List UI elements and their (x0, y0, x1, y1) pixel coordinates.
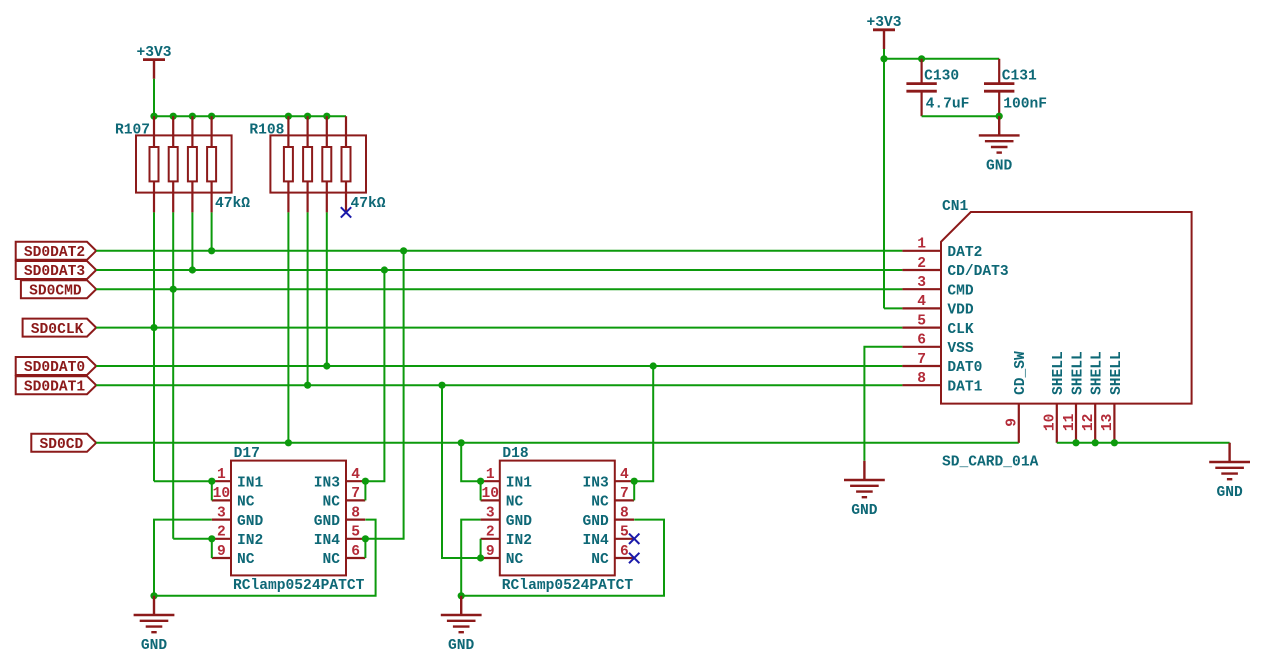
ground GND (SHELL) (1209, 443, 1250, 479)
wire R108.1 down to SD0CD (287, 212, 289, 442)
wire R108.3 down to SD0DAT0 (326, 212, 328, 366)
svg-text:1: 1 (217, 467, 226, 483)
wire D17 GND left down (154, 520, 212, 596)
D18 pin 6 (NC) stub (615, 557, 634, 559)
svg-text:3: 3 (217, 505, 226, 521)
junction C131 GND node (996, 113, 1003, 120)
svg-text:47kΩ: 47kΩ (215, 196, 250, 212)
svg-text:1: 1 (917, 237, 926, 253)
junction SD0CD / D18 IN1 (458, 439, 465, 446)
svg-text:GND: GND (851, 503, 878, 519)
svg-text:GND: GND (448, 638, 475, 654)
svg-text:GND: GND (986, 158, 1013, 174)
junction SD0CLK / R107.1 (150, 324, 157, 331)
svg-text:GND: GND (314, 514, 341, 530)
wire tie D17 pins 2-9 (211, 539, 213, 558)
svg-text:2: 2 (486, 525, 495, 541)
wire tie D17 pins 5-6 (364, 539, 366, 558)
global label SD0DAT3 (16, 261, 97, 279)
svg-text:SD0DAT0: SD0DAT0 (24, 360, 85, 376)
svg-text:VDD: VDD (947, 303, 974, 319)
global label SD0DAT2 (16, 242, 97, 260)
svg-text:SHELL: SHELL (1070, 351, 1086, 395)
junction D18 IN1 (477, 478, 484, 485)
svg-text:R108: R108 (249, 122, 284, 138)
D17 pin 7 (NC) stub (346, 499, 365, 501)
D18 pin 9 (NC) stub (481, 557, 500, 559)
svg-text:DAT0: DAT0 (947, 360, 982, 376)
wire tie D18 pins 2-9 (480, 539, 482, 558)
D18 pin 3 (GND) stub (481, 518, 500, 520)
wire tie D17 pins 1-10 (211, 481, 213, 500)
svg-text:GND: GND (583, 514, 610, 530)
D17 pin 1 (IN1) stub (212, 480, 231, 482)
junction SD0DAT2 / R107.4 (208, 247, 215, 254)
wire CN1 VSS to ground (864, 347, 902, 461)
svg-text:6: 6 (351, 544, 360, 560)
IC D18 body (500, 461, 615, 576)
D18 pin 8 (GND) stub (615, 518, 634, 520)
svg-text:GND: GND (1216, 485, 1243, 501)
svg-text:IN2: IN2 (237, 533, 263, 549)
svg-text:RClamp0524PATCT: RClamp0524PATCT (502, 578, 634, 594)
svg-text:NC: NC (237, 495, 255, 511)
wire D18 IN3 to SD0DAT0 (634, 366, 653, 481)
svg-text:7: 7 (351, 486, 360, 502)
global label SD0CMD (21, 280, 96, 298)
svg-text:8: 8 (620, 505, 629, 521)
no-connect X D18 pin6 (629, 553, 639, 563)
CN1 pin 2 (CD/DAT3) stub (902, 269, 941, 271)
ground GND (D17) (134, 596, 175, 632)
svg-text:12: 12 (1081, 414, 1097, 432)
wire tie D18 pins 1-10 (480, 481, 482, 500)
CN1 pin 9 (CD_SW) stub (1018, 404, 1020, 443)
svg-text:NC: NC (322, 552, 340, 568)
svg-text:RClamp0524PATCT: RClamp0524PATCT (233, 578, 365, 594)
junction D18 pin9 (477, 554, 484, 561)
wire R107.1 down to D17 IN1 (SD0CLK) (153, 212, 155, 481)
svg-text:CLK: CLK (947, 322, 974, 338)
junction top row x=211.6 (208, 113, 215, 120)
wire resistor top row (154, 115, 346, 117)
svg-text:SD0CD: SD0CD (40, 437, 84, 453)
wire D18 GND right loop (461, 520, 664, 596)
wire R107.3 down to SD0DAT3 (191, 212, 193, 270)
capacitor C131 (984, 59, 1014, 116)
junction SD0CMD / R107.2 (170, 286, 177, 293)
global label SD0CLK (23, 319, 97, 337)
svg-text:9: 9 (486, 544, 495, 560)
wire SD0DAT0 row (96, 365, 902, 367)
global label SD0DAT0 (16, 357, 97, 375)
wire R107.2 down to D17 IN2 (SD0CMD) (172, 212, 174, 538)
svg-text:CD/DAT3: CD/DAT3 (947, 264, 1009, 280)
svg-text:GND: GND (237, 514, 264, 530)
svg-text:IN3: IN3 (583, 475, 610, 491)
svg-text:GND: GND (506, 514, 533, 530)
wire R107.4 down to SD0DAT2 (211, 212, 213, 250)
CN1 pin 5 (CLK) stub (902, 327, 941, 329)
D18 pin 4 (IN3) stub (615, 480, 634, 482)
wire +3V3 top row (884, 58, 999, 60)
svg-text:NC: NC (322, 495, 340, 511)
CN1 pin 13 (SHELL) stub (1113, 404, 1115, 443)
svg-text:C131: C131 (1002, 68, 1037, 84)
svg-text:2: 2 (217, 525, 226, 541)
svg-text:SD0DAT1: SD0DAT1 (24, 379, 86, 395)
svg-text:3: 3 (917, 275, 926, 291)
svg-text:SHELL: SHELL (1051, 351, 1067, 395)
svg-text:6: 6 (620, 544, 629, 560)
D18 pin 2 (IN2) stub (481, 538, 500, 540)
IC D17 body (231, 461, 346, 576)
svg-text:7: 7 (620, 486, 629, 502)
wire tie D18 pins 4-7 (633, 481, 635, 500)
svg-text:4: 4 (917, 294, 926, 310)
svg-text:6: 6 (917, 333, 926, 349)
D17 pin 10 (NC) stub (212, 499, 231, 501)
svg-text:100nF: 100nF (1003, 97, 1047, 113)
D17 pin 6 (NC) stub (346, 557, 365, 559)
svg-text:1: 1 (486, 467, 495, 483)
svg-text:D18: D18 (502, 446, 528, 462)
svg-text:4.7uF: 4.7uF (926, 97, 970, 113)
svg-text:2: 2 (917, 256, 926, 272)
svg-text:SHELL: SHELL (1109, 351, 1125, 395)
junction C130 top (918, 55, 925, 62)
junction SD0DAT3 / R107.3 (189, 266, 196, 273)
junction D17 IN3 (362, 478, 369, 485)
svg-text:10: 10 (1043, 414, 1059, 432)
junction top row x=288.4 (285, 113, 292, 120)
junction SD0DAT1 / D18 (438, 382, 445, 389)
D18 pin 10 (NC) stub (481, 499, 500, 501)
junction SD0DAT2 / D17 IN4 (400, 247, 407, 254)
D17 pin 2 (IN2) stub (212, 538, 231, 540)
svg-text:SD0CLK: SD0CLK (31, 322, 84, 338)
resistor pack R107 body (136, 116, 232, 212)
wire to D17 IN2 (173, 538, 212, 540)
svg-text:SHELL: SHELL (1090, 351, 1106, 395)
svg-text:47kΩ: 47kΩ (351, 196, 386, 212)
svg-text:10: 10 (481, 486, 499, 502)
CN1 pin 11 (SHELL) stub (1075, 404, 1077, 443)
ground GND (C131) (979, 116, 1020, 152)
global label SD0CD (31, 434, 96, 452)
capacitor C130 (906, 59, 936, 116)
no-connect X D18 IN4 (629, 534, 639, 544)
svg-text:IN1: IN1 (506, 475, 533, 491)
D18 pin 7 (NC) stub (615, 499, 634, 501)
svg-text:5: 5 (917, 313, 926, 329)
svg-text:DAT2: DAT2 (947, 245, 982, 261)
wire D18 GND left down (461, 520, 480, 596)
junction D18 IN3 (631, 478, 638, 485)
junction D17 IN1 (208, 478, 215, 485)
svg-text:CMD: CMD (947, 283, 974, 299)
svg-text:SD_CARD_01A: SD_CARD_01A (942, 455, 1039, 471)
wire SD0CD to D18 IN1 (461, 443, 480, 481)
wire SD0CMD row (96, 288, 902, 290)
wire SD0DAT1 row (96, 384, 902, 386)
CN1 pin 1 (DAT2) stub (902, 250, 941, 252)
wire +3V3 down to VDD (883, 59, 885, 309)
svg-text:4: 4 (351, 467, 360, 483)
junction top row x=326.8 (323, 113, 330, 120)
wire D17 GND right loop (154, 520, 376, 596)
D17 pin 5 (IN4) stub (346, 538, 365, 540)
wire to D17 IN1 (154, 480, 212, 482)
CN1 pin 10 (SHELL) stub (1056, 404, 1058, 443)
svg-text:5: 5 (351, 525, 360, 541)
power +3V3 PWR1 (left) (143, 60, 165, 79)
junction SD0DAT3 / D17 IN3 (381, 266, 388, 273)
svg-text:SD0CMD: SD0CMD (29, 283, 82, 299)
svg-text:SD0DAT3: SD0DAT3 (24, 264, 86, 280)
svg-text:+3V3: +3V3 (136, 45, 171, 61)
svg-text:R107: R107 (115, 122, 150, 138)
junction top row x=173.2 (170, 113, 177, 120)
wire R108.2 down to SD0DAT1 (307, 212, 309, 385)
junction top row x=192.4 (189, 113, 196, 120)
CN1 pin 3 (CMD) stub (902, 288, 941, 290)
CN1 pin 12 (SHELL) stub (1094, 404, 1096, 443)
svg-text:CD_SW: CD_SW (1013, 351, 1029, 395)
svg-text:DAT1: DAT1 (947, 379, 982, 395)
svg-text:IN4: IN4 (583, 533, 610, 549)
junction SD0DAT1 / R108.2 (304, 382, 311, 389)
wire to CN1 VDD pin (884, 307, 902, 309)
svg-text:4: 4 (620, 467, 629, 483)
wire +3V3 stub (883, 49, 885, 59)
svg-text:7: 7 (917, 352, 926, 368)
wire D17 IN4 to SD0DAT2 (365, 251, 403, 539)
junction D18 GND node (458, 592, 465, 599)
junction D17 IN2 (208, 535, 215, 542)
global label SD0DAT1 (16, 376, 97, 394)
ground GND (VSS) (844, 461, 885, 497)
D17 pin 8 (GND) stub (346, 518, 365, 520)
junction D17 IN4 (362, 535, 369, 542)
junction top row x=154 (150, 113, 157, 120)
resistor pack R108 body (270, 116, 366, 212)
junction SHELL pin at x=1095.2 (1092, 439, 1099, 446)
svg-text:IN3: IN3 (314, 475, 341, 491)
D17 pin 4 (IN3) stub (346, 480, 365, 482)
svg-text:NC: NC (591, 495, 609, 511)
junction top row x=307.6 (304, 113, 311, 120)
wire SD0DAT2 row (96, 250, 902, 252)
wire SD0DAT1 to D18 pin9 (442, 385, 481, 558)
wire SHELL pins bus (1057, 442, 1230, 444)
D18 pin 1 (IN1) stub (481, 480, 500, 482)
svg-text:SD0DAT2: SD0DAT2 (24, 245, 85, 261)
wire SD0CLK row (96, 327, 902, 329)
svg-text:8: 8 (917, 371, 926, 387)
svg-text:IN4: IN4 (314, 533, 341, 549)
svg-text:NC: NC (506, 552, 524, 568)
svg-text:5: 5 (620, 525, 629, 541)
CN1 pin 4 (VDD) stub (902, 307, 941, 309)
svg-text:NC: NC (591, 552, 609, 568)
wire tie D17 pins 4-7 (364, 481, 366, 500)
wire SD0CD row (96, 442, 1019, 444)
svg-text:C130: C130 (924, 68, 959, 84)
D17 pin 9 (NC) stub (212, 557, 231, 559)
svg-text:9: 9 (1005, 418, 1021, 427)
svg-text:GND: GND (141, 638, 168, 654)
junction SD0DAT0 / R108.3 (323, 362, 330, 369)
junction SD0DAT0 / D18 IN3 (650, 362, 657, 369)
svg-text:VSS: VSS (947, 341, 974, 357)
svg-text:NC: NC (506, 495, 524, 511)
svg-text:IN2: IN2 (506, 533, 532, 549)
junction D17 GND node (150, 592, 157, 599)
no-connect X R108.4 bottom (341, 207, 351, 217)
junction SHELL pin at x=1114.4 (1111, 439, 1118, 446)
wire +3V3 to R107 top row (153, 79, 155, 116)
junction +3V3 / VDD (880, 55, 887, 62)
svg-text:NC: NC (237, 552, 255, 568)
svg-text:11: 11 (1062, 413, 1078, 431)
svg-text:10: 10 (213, 486, 231, 502)
D17 pin 3 (GND) stub (212, 518, 231, 520)
svg-text:8: 8 (351, 505, 360, 521)
svg-text:D17: D17 (234, 446, 260, 462)
CN1 pin 6 (VSS) stub (902, 346, 941, 348)
svg-text:13: 13 (1100, 413, 1116, 431)
svg-text:CN1: CN1 (942, 199, 969, 215)
junction SHELL pin at x=1076.0 (1072, 439, 1079, 446)
svg-text:9: 9 (217, 544, 226, 560)
CN1 pin 7 (DAT0) stub (902, 365, 941, 367)
wire SD0DAT3 row (96, 269, 902, 271)
svg-text:IN1: IN1 (237, 475, 264, 491)
junction SD0CD / R108.1 (285, 439, 292, 446)
CN1 pin 8 (DAT1) stub (902, 384, 941, 386)
power +3V3 PWR2 (right) (873, 30, 895, 49)
wire SHELL bus corner (1229, 442, 1231, 445)
wire D17 IN3 to SD0DAT3 (365, 270, 384, 481)
ground GND (D18) (441, 596, 482, 632)
connector CN1 body (941, 212, 1192, 404)
wire C130 bottom to C131 bottom (922, 115, 1000, 117)
svg-text:+3V3: +3V3 (866, 15, 901, 31)
D18 pin 5 (IN4) stub (615, 538, 634, 540)
svg-text:3: 3 (486, 505, 495, 521)
